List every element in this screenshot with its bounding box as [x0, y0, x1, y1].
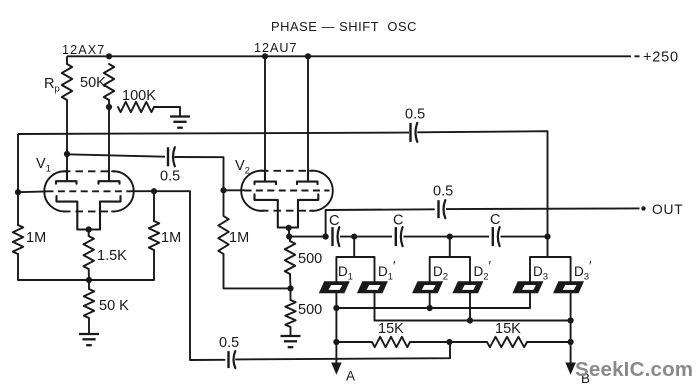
wire +250 supply rail	[67, 55, 631, 57]
svg-text:1M: 1M	[26, 230, 46, 246]
tube V1 right cathode	[100, 196, 121, 230]
wire rail corner to Rp	[66, 56, 68, 64]
resistor 1M V1 right grid	[149, 221, 159, 250]
wire 15K to B lead	[527, 341, 571, 343]
wire grid node to 1M	[223, 190, 225, 216]
svg-text:A: A	[346, 369, 355, 384]
resistor 50K cathode	[84, 289, 94, 318]
resistor 500 lower	[285, 300, 295, 327]
wire cap 0.5 to V2 grid corner	[175, 157, 224, 190]
capacitor 0.5 bottom	[229, 351, 236, 368]
wire 1.5K to junction	[88, 269, 90, 280]
svg-text:D1: D1	[338, 264, 353, 283]
wire bottom 0.5 to centre tap	[236, 342, 450, 359]
diode D2p	[452, 281, 483, 293]
svg-text:D3′: D3′	[574, 259, 592, 283]
tube V2 envelope left arc	[241, 171, 264, 211]
resistor 15K first	[372, 337, 410, 347]
resistor 100K	[118, 102, 154, 112]
resistor 15K second	[487, 337, 527, 347]
svg-text:0.5: 0.5	[405, 107, 425, 123]
svg-text:PHASE — SHIFT OSC: PHASE — SHIFT OSC	[271, 19, 417, 34]
svg-text:12AX7: 12AX7	[62, 43, 105, 57]
wire left bus upper	[17, 134, 19, 225]
svg-text:SeekIC.com: SeekIC.com	[575, 358, 693, 381]
wire rail to V2 right plate	[307, 56, 309, 181]
svg-text:1M: 1M	[229, 230, 249, 246]
tube V2 right plate	[297, 171, 318, 184]
diode D1	[319, 281, 350, 293]
capacitor C2	[396, 227, 403, 246]
diode D1p	[357, 281, 388, 293]
wire 1M tap	[153, 191, 155, 221]
node B on 15K line	[568, 339, 574, 345]
tube V2 left plate	[255, 171, 277, 184]
node 500 divider tap	[287, 285, 293, 291]
svg-text:0.5: 0.5	[433, 184, 453, 200]
wire C ladder segment 3	[404, 236, 490, 238]
wire rail end dash	[635, 55, 640, 57]
wire D2 bracket	[430, 237, 470, 282]
tube V2 grid dashed	[245, 190, 330, 192]
tube V2 right cathode	[298, 194, 318, 227]
node cathode resistor junction	[86, 277, 92, 283]
svg-text:1M: 1M	[161, 230, 181, 246]
wire 15K to centre tap	[410, 341, 450, 343]
svg-text:500: 500	[298, 302, 322, 318]
node output branch on C line	[323, 234, 329, 240]
tube V2 envelope top dashed	[261, 170, 313, 172]
node D2 pair tap	[447, 234, 453, 240]
wire to V2 left grid	[224, 189, 246, 191]
capacitor C1	[333, 227, 340, 246]
wire D1p-D2p-D3p line	[375, 293, 571, 321]
wire 500 to ground	[290, 327, 292, 336]
svg-text:V2: V2	[235, 158, 250, 177]
tube V1 left plate	[56, 171, 77, 184]
node V2 grid junction	[220, 187, 226, 193]
node OUT terminal	[641, 206, 645, 210]
svg-text:D2: D2	[433, 264, 448, 283]
node V1 plate / coupling cap junction	[64, 151, 70, 157]
wire C ladder segment 4	[501, 236, 548, 238]
wire D3p to B	[570, 293, 572, 364]
svg-text:1.5K: 1.5K	[97, 248, 127, 264]
resistor 1M V2 grid leak	[218, 216, 228, 254]
ground 100K	[170, 117, 190, 128]
wire V2 cathode stem	[288, 228, 291, 237]
node D1 pair tap	[351, 234, 357, 240]
node V2 cathode	[286, 225, 292, 231]
resistor 50K plate load	[104, 64, 114, 100]
wire V1 right grid lead	[132, 190, 191, 192]
node V1 left grid	[15, 189, 21, 195]
wire 100K to ground	[154, 107, 180, 117]
capacitor 0.5 output	[439, 200, 446, 218]
wire 50K to V1 right plate	[108, 100, 110, 181]
tube V2 envelope bottom dashed	[261, 210, 313, 212]
node D2p on line Q	[467, 317, 473, 323]
capacitor C3	[493, 227, 500, 246]
wire Rp to V1 left plate	[66, 100, 68, 181]
svg-text:50 K: 50 K	[99, 298, 129, 314]
node rail V2 left plate	[262, 53, 268, 59]
diode D3	[512, 281, 543, 293]
wire centre tap to 15K second	[450, 341, 488, 343]
svg-text:V1: V1	[36, 156, 51, 175]
tube V1 envelope bottom dashed	[63, 210, 115, 212]
capacitor 0.5 coupling	[168, 147, 175, 166]
tube V1 envelope left arc	[44, 171, 66, 211]
svg-text:100K: 100K	[122, 88, 156, 104]
tube V1 envelope top dashed	[63, 170, 115, 172]
tube V2 envelope right arc	[310, 171, 333, 211]
wire output line to OUT	[446, 207, 640, 210]
wire V1 grid down leg	[190, 191, 225, 360]
tube V1 envelope right arc	[112, 171, 134, 211]
wire C ladder segment 1	[289, 236, 328, 238]
resistor Rp	[62, 64, 72, 100]
svg-text:C: C	[393, 213, 403, 229]
diode D3p	[553, 281, 584, 293]
svg-text:0.5: 0.5	[219, 335, 239, 351]
node V1 right grid 1M tap	[151, 188, 157, 194]
wire rail to V2 left plate	[264, 56, 266, 181]
wire 50K to ground	[88, 318, 90, 334]
resistor 1.5K	[84, 236, 94, 269]
svg-text:D2′: D2′	[474, 259, 492, 283]
wire junction to 50K	[88, 280, 90, 289]
svg-text:0.5: 0.5	[160, 169, 180, 185]
terminal A arrow	[332, 363, 341, 374]
wire tap to 500 lower	[290, 288, 292, 300]
svg-text:Rp: Rp	[44, 76, 60, 95]
node D3p on line Q	[568, 317, 574, 323]
svg-text:OUT: OUT	[652, 202, 684, 217]
wire D3 bracket	[530, 237, 571, 282]
svg-text:C: C	[329, 213, 339, 229]
tube V1 right plate	[99, 171, 120, 184]
resistor 1M V1 left grid	[13, 225, 23, 254]
wire feedback line to right bus	[418, 131, 548, 236]
wire D1-D2-D3 line	[336, 293, 530, 364]
wire V2 cathode join	[278, 227, 298, 229]
ground V1 cathode	[79, 334, 99, 345]
svg-text:D3: D3	[533, 264, 548, 283]
tube V1 left cathode	[57, 196, 78, 230]
node C ladder right end	[544, 234, 550, 240]
svg-text:+250: +250	[643, 50, 679, 66]
wire left bus lower	[18, 254, 154, 280]
wire 500 to tap	[289, 274, 292, 288]
node rail V2 right plate	[305, 53, 311, 59]
node 50K/100K junction	[106, 104, 112, 110]
node V1 cathode	[86, 226, 92, 232]
wire C ladder segment 2	[340, 236, 392, 238]
tube V2 left cathode	[255, 194, 278, 227]
capacitor 0.5 feedback	[411, 123, 418, 142]
node rail-50K junction	[106, 53, 112, 59]
svg-text:12AU7: 12AU7	[254, 41, 298, 55]
svg-text:15K: 15K	[378, 321, 404, 337]
tube V1 grid dashed	[47, 190, 132, 192]
node V2 cathode on C line	[286, 234, 292, 240]
wire feedback line top	[18, 133, 409, 134]
wire V1 plate to cap 0.5	[67, 154, 165, 156]
wire cathode to 1.5K	[88, 230, 90, 237]
wire A to 15K	[336, 341, 372, 343]
node A on 15K line	[333, 339, 339, 345]
ground V2 cathode divider	[281, 336, 301, 347]
terminal B arrow	[566, 363, 575, 374]
node D2 on line P	[427, 305, 433, 311]
resistor 500 upper	[285, 241, 295, 274]
wire cathode to 500	[289, 237, 291, 241]
svg-text:500: 500	[298, 251, 322, 267]
wire V1 left grid lead	[18, 190, 47, 193]
node 15K centre tap	[446, 339, 452, 345]
svg-text:C: C	[490, 212, 500, 228]
wire cathode up branch	[326, 209, 434, 236]
wire 1M bottom to y280 line	[153, 250, 155, 280]
node D1 on line P	[333, 305, 339, 311]
wire D1 bracket	[336, 237, 374, 282]
svg-text:D1′: D1′	[378, 259, 396, 283]
svg-text:50K: 50K	[80, 75, 106, 91]
diode D2	[412, 281, 443, 293]
wire V1 cathode join	[77, 229, 100, 231]
svg-text:15K: 15K	[495, 321, 521, 337]
wire 1M to 500 divider tap	[224, 254, 291, 288]
